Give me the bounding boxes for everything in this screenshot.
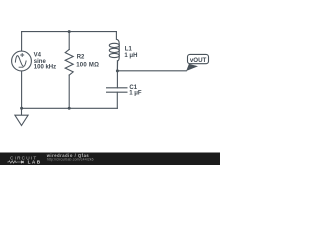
wire: R2 top lead	[68, 32, 70, 50]
svg-text:http://circuitlab.com/c44l2k6: http://circuitlab.com/c44l2k6	[47, 157, 94, 161]
junction: top rail / R2	[68, 30, 71, 33]
footer watermark bar	[0, 153, 220, 166]
svg-text:100 kHz: 100 kHz	[34, 65, 56, 71]
CircuitLab logo: squiggle	[7, 161, 21, 163]
wire: bottom rail	[22, 107, 118, 109]
junction: bottom rail / R2	[68, 107, 71, 110]
CircuitLab logo: diode triangle	[21, 161, 24, 164]
wire: V4 top lead	[21, 32, 23, 51]
wire: R2 bottom lead	[68, 75, 70, 108]
voltage source V4 body	[12, 51, 32, 71]
svg-text:L1: L1	[125, 47, 133, 53]
svg-text:1 μF: 1 μF	[129, 91, 142, 97]
capacitor C1 plates	[107, 88, 127, 92]
wire: V4 bottom lead	[21, 71, 23, 108]
wire: C1 bottom lead	[116, 92, 118, 108]
wire: node vOUT horizontal run	[117, 70, 186, 72]
junction: bottom rail / ground	[20, 107, 23, 110]
ground symbol	[15, 108, 28, 125]
junction: L1 / C1 / vOUT node	[116, 69, 119, 72]
svg-text:V4: V4	[34, 53, 42, 59]
inductor L1 body	[109, 32, 119, 71]
wire: L1 bottom lead to node vOUT	[116, 61, 118, 71]
svg-text:vOUT: vOUT	[190, 57, 207, 64]
svg-text:100 MΩ: 100 MΩ	[76, 62, 99, 68]
net flag vOUT	[186, 54, 208, 71]
resistor R2 body	[65, 49, 73, 75]
wire: top rail	[22, 31, 117, 33]
svg-text:LAB: LAB	[28, 160, 42, 165]
svg-text:1 μH: 1 μH	[124, 53, 137, 59]
wire: C1 top lead	[116, 71, 118, 88]
svg-text:R2: R2	[77, 55, 85, 61]
